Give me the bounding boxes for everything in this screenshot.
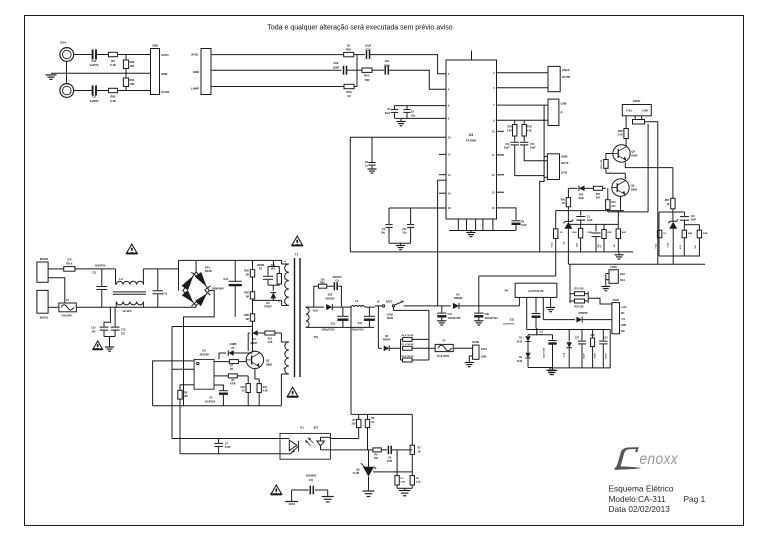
ground <box>546 308 555 312</box>
wire <box>376 471 413 473</box>
resistor R50b <box>561 188 571 210</box>
wire <box>395 105 447 107</box>
svg-text:UU10.5: UU10.5 <box>122 309 132 313</box>
pin 7 <box>493 105 495 107</box>
svg-text:1M: 1M <box>245 273 248 276</box>
svg-text:BAT1: BAT1 <box>386 300 393 303</box>
transistor Q2 <box>246 351 272 368</box>
svg-text:E13: E13 <box>331 323 336 326</box>
svg-text:10K: 10K <box>130 82 135 86</box>
resistor R12 <box>265 331 275 344</box>
wire <box>528 367 553 369</box>
svg-text:FR207: FR207 <box>264 306 272 309</box>
wire <box>330 438 358 440</box>
wire <box>394 306 429 360</box>
svg-text:2200uF/25V: 2200uF/25V <box>321 329 335 332</box>
svg-text:R3B: R3B <box>703 233 708 235</box>
logo Lenoxx <box>614 447 678 470</box>
svg-text:GND: GND <box>621 325 626 327</box>
svg-text:104P: 104P <box>691 219 697 222</box>
capacitor C27 <box>575 330 586 368</box>
wire <box>306 306 324 308</box>
svg-text:2.4K: 2.4K <box>527 129 532 132</box>
fuse F1 <box>59 299 76 318</box>
wire <box>178 260 180 290</box>
capacitor C21 <box>89 50 98 68</box>
capacitor C9s <box>332 276 342 290</box>
wire <box>211 54 344 56</box>
wire <box>570 292 575 303</box>
wire <box>96 90 109 92</box>
ground <box>548 368 557 375</box>
svg-text:1K: 1K <box>666 203 669 206</box>
capacitor C13 <box>153 269 168 307</box>
svg-text:2.4K: 2.4K <box>110 99 116 103</box>
svg-text:P4: P4 <box>505 289 509 293</box>
svg-text:R4C 22K: R4C 22K <box>600 159 603 168</box>
pin 11 <box>492 155 504 157</box>
connector CN9 <box>548 99 567 125</box>
svg-text:+5V: +5V <box>621 319 626 321</box>
svg-text:CN8: CN8 <box>152 44 158 48</box>
svg-text:GND: GND <box>161 72 167 76</box>
svg-text:R51: R51 <box>596 193 601 196</box>
resistor R32 <box>255 369 268 406</box>
capacitor C8 <box>89 86 98 103</box>
node junction <box>356 55 358 87</box>
svg-text:C11: C11 <box>92 272 97 275</box>
svg-text:R50: R50 <box>590 335 595 337</box>
resistor R3B <box>244 299 255 321</box>
zener D22 <box>667 209 679 264</box>
wire <box>588 298 612 304</box>
svg-text:BCN1: BCN1 <box>40 316 48 320</box>
wire <box>354 54 365 56</box>
wire <box>453 347 472 349</box>
svg-text:SOM: SOM <box>561 155 568 159</box>
svg-text:220uF: 220uF <box>606 352 608 359</box>
wire <box>411 414 413 445</box>
wire <box>375 305 382 307</box>
wire <box>391 449 412 451</box>
svg-text:104P: 104P <box>587 219 593 222</box>
wire <box>347 69 363 71</box>
pin 16 <box>439 193 451 195</box>
svg-text:MAIN: MAIN <box>387 317 393 320</box>
svg-text:220uF/25V: 220uF/25V <box>503 324 514 326</box>
resistor R5o <box>410 472 421 488</box>
svg-text:Pag 1: Pag 1 <box>684 494 706 504</box>
svg-text:D20: D20 <box>579 193 584 196</box>
wire <box>48 268 64 270</box>
svg-text:OUTR: OUTR <box>562 75 571 79</box>
svg-text:102/400V: 102/400V <box>306 475 317 478</box>
svg-text:104: 104 <box>385 59 390 63</box>
pin 2 <box>448 74 450 76</box>
svg-text:C15: C15 <box>448 313 453 316</box>
resistor R50c <box>590 330 596 368</box>
svg-text:R62: R62 <box>110 95 116 99</box>
capacitor C12y <box>111 307 126 336</box>
footer text <box>609 484 706 515</box>
wire <box>659 255 700 257</box>
capacitor C15 <box>437 306 461 325</box>
svg-text:332P: 332P <box>333 65 339 69</box>
svg-text:22uF/50V: 22uF/50V <box>205 401 216 404</box>
capacitor E1 <box>385 106 398 119</box>
wire <box>74 54 92 56</box>
wire <box>624 173 626 179</box>
svg-text:C13: C13 <box>163 293 168 296</box>
svg-text:C30: C30 <box>485 313 490 316</box>
op-amp U3 <box>446 60 497 219</box>
svg-text:C5M: C5M <box>384 63 390 67</box>
wire <box>478 276 480 306</box>
transistor TL431 <box>353 450 377 490</box>
wire <box>585 292 589 303</box>
svg-text:C71: C71 <box>530 143 535 146</box>
svg-text:1K: 1K <box>418 451 421 454</box>
svg-text:LOW: LOW <box>642 110 648 113</box>
wire <box>211 86 344 88</box>
svg-text:BLK: BLK <box>313 310 318 313</box>
svg-text:10uF: 10uF <box>365 43 372 47</box>
wire <box>377 306 379 348</box>
ground <box>614 252 623 259</box>
pin 13 <box>492 175 504 177</box>
svg-text:BCN6: BCN6 <box>472 341 479 344</box>
wire <box>625 139 627 146</box>
wire <box>48 278 65 304</box>
capacitor C72 <box>504 136 519 150</box>
svg-text:DA2: DA2 <box>620 273 625 276</box>
svg-text:1K: 1K <box>347 43 350 47</box>
wire <box>497 72 549 74</box>
resistor R47 <box>695 225 708 256</box>
ground <box>363 491 375 496</box>
ground <box>465 363 474 367</box>
transistor Q5 <box>612 179 638 196</box>
svg-text:5.1V: 5.1V <box>564 352 566 357</box>
resistor R46 <box>679 225 693 256</box>
resistor R6o <box>373 448 381 460</box>
svg-text:R74 220: R74 220 <box>574 288 584 291</box>
svg-text:2.4K: 2.4K <box>507 129 512 132</box>
svg-text:R9A: R9A <box>320 282 325 285</box>
wire <box>327 490 329 497</box>
wire <box>569 264 571 292</box>
svg-text:10K: 10K <box>374 458 379 460</box>
wire <box>253 299 282 301</box>
wire <box>438 179 446 181</box>
capacitor C30 <box>474 306 498 325</box>
resistor R50 <box>344 43 354 57</box>
svg-text:R54: R54 <box>611 201 616 204</box>
wire <box>568 223 618 225</box>
svg-text:1M: 1M <box>245 318 248 321</box>
resistor R62b <box>402 343 429 350</box>
connector CN7 <box>191 49 211 95</box>
wire <box>349 137 351 252</box>
wire <box>585 187 594 189</box>
svg-text:OC: OC <box>663 233 667 235</box>
wire <box>625 162 673 167</box>
ground <box>546 368 555 375</box>
svg-text:T1: T1 <box>295 253 299 257</box>
svg-text:R29: R29 <box>241 387 246 389</box>
svg-text:TL431: TL431 <box>353 472 361 475</box>
warning triangle <box>271 485 282 494</box>
resistor R2B <box>244 277 255 299</box>
resistor R2s <box>270 264 281 284</box>
connector CN1D <box>612 299 627 334</box>
pin 9 <box>493 120 495 122</box>
resistor R62 <box>109 88 118 103</box>
wire <box>526 297 528 329</box>
wire <box>184 291 215 406</box>
wire <box>104 336 115 338</box>
wire <box>397 487 412 489</box>
capacitor E2 <box>403 106 415 119</box>
wire <box>540 105 544 252</box>
wire <box>180 453 280 455</box>
svg-text:AUX1: AUX1 <box>161 53 169 57</box>
svg-text:R7B: R7B <box>527 126 532 129</box>
svg-text:LAMP: LAMP <box>191 87 199 91</box>
wire <box>659 211 685 213</box>
pin 12 <box>439 154 451 156</box>
svg-text:E10: E10 <box>224 278 229 281</box>
resistor R4C <box>600 154 613 174</box>
svg-text:T1S: T1S <box>314 336 319 339</box>
svg-text:CN9: CN9 <box>561 102 567 106</box>
resistor R60 <box>123 55 135 74</box>
svg-text:R5: R5 <box>111 59 115 63</box>
jack CD4 lower <box>60 84 74 98</box>
svg-text:Esquema Elétrico: Esquema Elétrico <box>609 484 674 494</box>
wire <box>354 86 357 88</box>
svg-text:AUXL: AUXL <box>191 53 199 57</box>
svg-text:817: 817 <box>314 425 319 429</box>
wire <box>75 268 116 270</box>
inductor L4 <box>536 328 543 334</box>
wire <box>314 286 319 307</box>
switch CON1 <box>382 301 403 320</box>
resistor R79 <box>574 299 584 308</box>
svg-text:4148: 4148 <box>517 341 523 344</box>
resistor R7B <box>522 120 532 136</box>
wire <box>247 333 249 351</box>
resistor R4s <box>214 374 248 386</box>
wire <box>568 263 705 265</box>
capacitor C31 <box>402 208 414 243</box>
svg-text:1K: 1K <box>242 391 245 393</box>
svg-text:4148: 4148 <box>578 197 584 200</box>
wire <box>51 72 151 74</box>
svg-text:JF3028: JF3028 <box>199 353 209 357</box>
svg-text:RD-9: RD-9 <box>66 263 72 266</box>
svg-text:0.6R: 0.6R <box>263 391 268 393</box>
svg-text:GND: GND <box>193 70 199 74</box>
wire <box>497 119 549 121</box>
wire <box>620 196 622 212</box>
svg-text:104/275V: 104/275V <box>95 264 106 267</box>
svg-text:R3B: R3B <box>244 314 249 317</box>
wire <box>550 297 552 307</box>
svg-text:SCN: SCN <box>561 171 567 175</box>
svg-text:C04: C04 <box>366 47 371 51</box>
svg-text:D965: D965 <box>632 155 639 158</box>
capacitor E32 <box>503 314 540 329</box>
svg-text:4.7K: 4.7K <box>679 244 682 249</box>
wire <box>180 384 194 386</box>
svg-text:1M: 1M <box>245 295 248 298</box>
svg-text:R4B: R4B <box>618 130 623 133</box>
op-amp U2 <box>194 348 214 389</box>
svg-text:D3SB: D3SB <box>205 270 212 273</box>
fuse F2 <box>435 340 453 358</box>
warning triangle <box>287 387 298 396</box>
svg-text:CN1H: CN1H <box>610 266 617 269</box>
wire <box>625 116 627 129</box>
wire <box>48 306 59 308</box>
svg-text:N4007: N4007 <box>250 342 258 345</box>
capacitor E14 <box>350 307 374 332</box>
svg-text:R4B: R4B <box>688 232 693 235</box>
svg-text:1K: 1K <box>347 94 350 98</box>
wire <box>327 285 334 287</box>
resistor R43 <box>599 224 612 252</box>
svg-text:220uF: 220uF <box>584 352 586 359</box>
capacitor C5 <box>576 211 593 225</box>
svg-text:2M: 2M <box>184 395 187 398</box>
svg-text:D965: D965 <box>631 189 638 192</box>
svg-text:70R: 70R <box>365 78 370 82</box>
capacitor C10 <box>91 307 110 336</box>
svg-text:1K: 1K <box>562 202 565 205</box>
svg-text:220: 220 <box>611 205 616 208</box>
transistor Q4 <box>613 145 638 162</box>
diode D3 <box>517 353 531 368</box>
svg-text:R5C: R5C <box>665 199 670 202</box>
ground <box>322 497 334 502</box>
wire <box>544 176 547 178</box>
capacitor E13 <box>321 307 348 332</box>
wire <box>411 454 413 472</box>
resistor R5C2 <box>665 198 675 209</box>
svg-text:45B: 45B <box>576 243 579 247</box>
svg-text:OUT2: OUT2 <box>561 161 569 165</box>
diode D2 <box>517 335 531 353</box>
svg-text:R32: R32 <box>263 387 268 389</box>
svg-text:Data 02/02/2013: Data 02/02/2013 <box>609 504 671 514</box>
resistor R5 <box>109 52 118 67</box>
svg-text:CN10: CN10 <box>562 68 570 72</box>
connector P4 <box>505 283 557 297</box>
svg-text:10u: 10u <box>381 232 386 235</box>
capacitor C7 <box>214 439 231 454</box>
wire <box>76 306 196 308</box>
resistor R61 <box>123 73 135 90</box>
svg-text:1N5822: 1N5822 <box>454 297 463 300</box>
wire <box>543 319 575 321</box>
pin 10 <box>492 131 504 133</box>
capacitor C11 <box>92 264 107 307</box>
svg-text:C10: C10 <box>91 327 96 330</box>
pin 10 <box>448 137 451 139</box>
wire <box>179 259 282 261</box>
svg-text:BCN2: BCN2 <box>40 257 48 261</box>
wire <box>647 124 649 212</box>
wire <box>685 224 700 226</box>
wire <box>497 104 549 106</box>
svg-text:U3: U3 <box>469 133 473 137</box>
wire <box>118 54 151 56</box>
ground <box>46 75 57 79</box>
svg-text:R79 220: R79 220 <box>574 305 584 308</box>
wire <box>544 156 547 158</box>
wire <box>306 326 374 328</box>
wire <box>370 55 447 74</box>
wire <box>381 449 387 451</box>
wire <box>603 187 606 189</box>
diode D6 <box>453 294 463 309</box>
svg-text:U1: U1 <box>300 425 304 429</box>
svg-text:1000uF/16V: 1000uF/16V <box>485 317 499 320</box>
svg-text:CON1: CON1 <box>387 313 394 316</box>
zener D21 <box>563 211 573 265</box>
svg-text:22u: 22u <box>411 114 416 117</box>
svg-text:5.1K: 5.1K <box>110 63 116 67</box>
warning triangle <box>292 236 303 245</box>
wire <box>524 145 547 160</box>
resistor R41 <box>572 224 582 252</box>
jack CD4 upper <box>60 41 74 62</box>
wire <box>606 172 625 174</box>
pin 18 <box>448 208 451 210</box>
resistor R29 <box>241 376 251 406</box>
wire <box>268 284 279 285</box>
svg-text:C27: C27 <box>575 338 580 340</box>
connector BCN6 <box>472 341 487 359</box>
wire <box>609 330 611 368</box>
wire <box>497 87 549 89</box>
wire <box>172 368 194 370</box>
wire <box>556 210 624 212</box>
svg-text:R50: R50 <box>561 198 566 201</box>
capacitor E30 <box>333 61 347 75</box>
svg-text:2W0M: 2W0M <box>257 264 264 267</box>
inductor L2 <box>113 269 146 313</box>
svg-text:C72: C72 <box>505 143 510 146</box>
svg-text:DA1: DA1 <box>620 279 625 282</box>
svg-text:enoxx: enoxx <box>640 451 679 468</box>
ground <box>396 243 405 250</box>
wire <box>211 69 342 71</box>
svg-text:1u/50V: 1u/50V <box>89 63 98 67</box>
connector plug <box>633 116 645 124</box>
svg-text:E30: E30 <box>334 61 339 65</box>
wire <box>350 306 352 415</box>
svg-text:1W: 1W <box>614 244 616 247</box>
wire <box>330 449 373 451</box>
resistor R7o <box>352 414 361 438</box>
svg-text:CD4: CD4 <box>60 41 66 45</box>
svg-text:2.2K: 2.2K <box>618 134 623 137</box>
svg-text:1u/50V: 1u/50V <box>89 99 98 103</box>
wire <box>143 268 178 270</box>
wire <box>118 90 151 92</box>
